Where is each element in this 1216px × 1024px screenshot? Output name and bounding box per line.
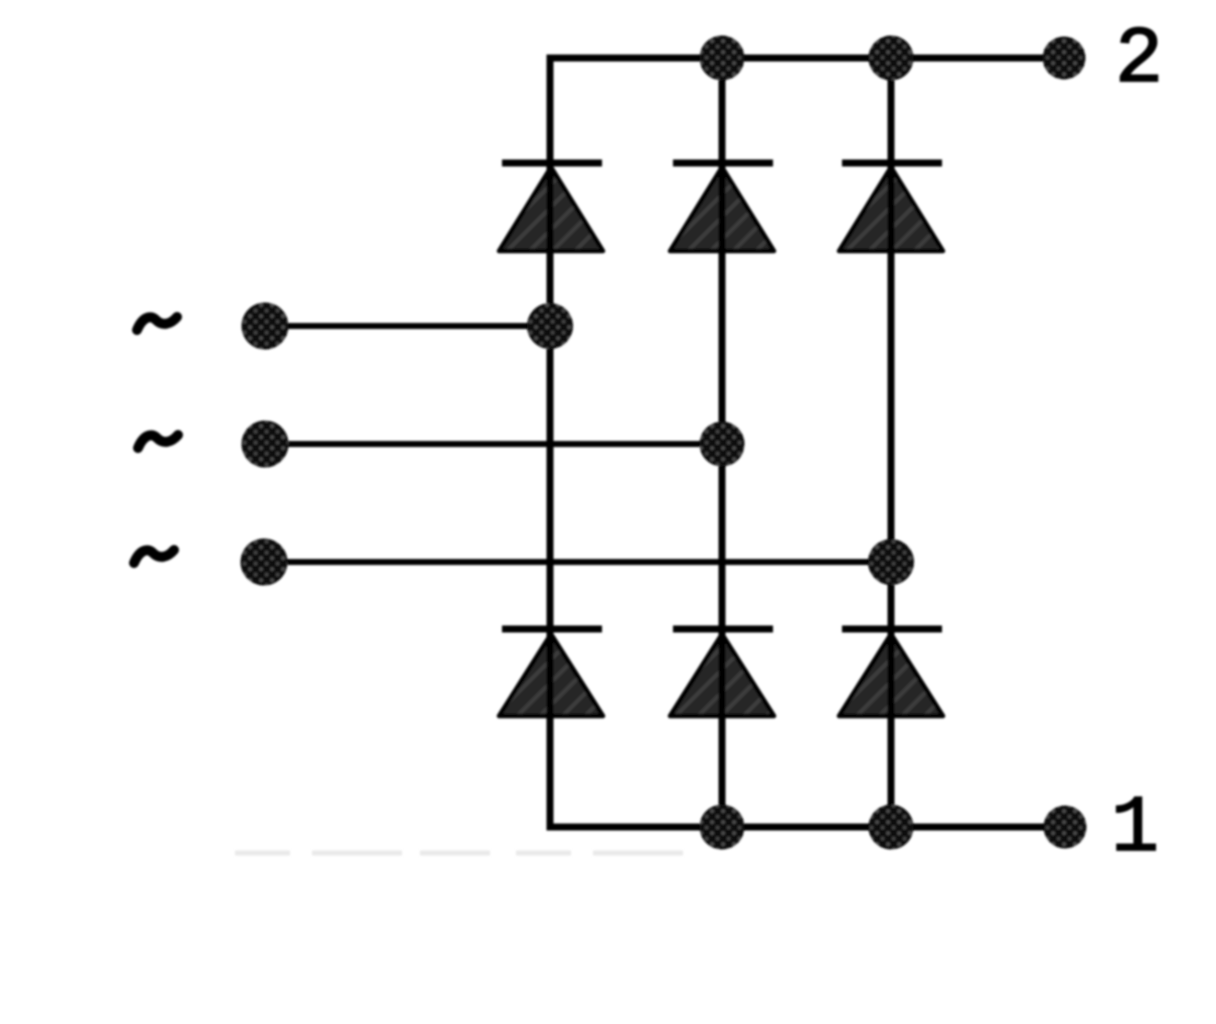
svg-text:1: 1 — [1111, 784, 1159, 875]
svg-text:2: 2 — [1115, 15, 1163, 106]
